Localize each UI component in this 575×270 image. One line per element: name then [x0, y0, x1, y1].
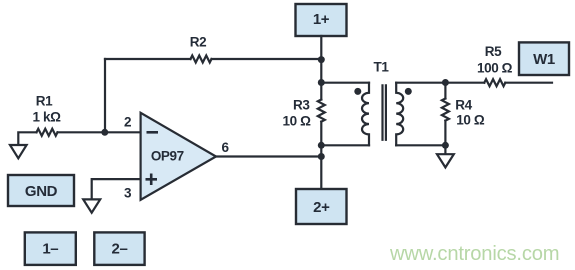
op-amp U1 OP97 — [141, 113, 216, 200]
wire primary top — [321, 82, 369, 84]
svg-text:2–: 2– — [112, 241, 128, 258]
T1 secondary phase dot — [405, 88, 412, 95]
svg-text:R5: R5 — [485, 44, 502, 59]
junction node inverting input — [101, 129, 108, 136]
svg-text:10 Ω: 10 Ω — [283, 114, 312, 129]
svg-text:GND: GND — [25, 183, 58, 200]
node W1 box — [519, 42, 569, 75]
wire secondary top — [396, 82, 445, 84]
resistor R5 — [484, 79, 505, 86]
svg-text:T1: T1 — [374, 59, 390, 74]
transformer T1 primary winding — [362, 83, 369, 146]
transformer T1 core — [383, 85, 386, 139]
wire R4 bottom to ground — [444, 121, 446, 155]
junction trunk x feedback wire — [318, 56, 325, 63]
node GND box — [8, 175, 74, 206]
svg-text:R1: R1 — [36, 94, 53, 109]
svg-text:R4: R4 — [455, 97, 472, 112]
svg-text:R2: R2 — [190, 35, 206, 50]
svg-text:1+: 1+ — [313, 11, 330, 28]
wire primary bottom — [321, 144, 369, 146]
junction secondary top x R4 x R5 — [442, 79, 449, 86]
resistor R1 — [37, 129, 58, 136]
wire secondary to R5 — [445, 82, 484, 84]
junction trunk x primary top — [318, 79, 325, 86]
transformer T1 secondary winding — [396, 83, 403, 146]
resistor R2 — [191, 56, 212, 63]
svg-text:2+: 2+ — [313, 199, 330, 216]
wire trunk 1+ down to R3 — [320, 36, 322, 100]
svg-text:W1: W1 — [533, 51, 555, 68]
wire op-amp output to trunk — [216, 155, 321, 157]
ground below transformer secondary — [437, 154, 454, 167]
wire R1 right to op-amp pin 2 — [58, 131, 141, 133]
op-amp plus sign — [146, 174, 158, 186]
node 1- box — [25, 232, 76, 265]
resistor R4 — [442, 99, 449, 121]
wire feedback vertical corner down to inverting input node — [104, 59, 106, 132]
svg-text:R3: R3 — [293, 98, 310, 113]
ground below pin 3 — [83, 199, 100, 212]
svg-text:100 Ω: 100 Ω — [477, 61, 513, 76]
svg-text:1 kΩ: 1 kΩ — [33, 109, 62, 124]
wire R2 right to trunk — [212, 58, 322, 60]
svg-text:2: 2 — [124, 115, 131, 130]
junction secondary bottom x R4 — [442, 142, 449, 149]
T1 primary phase dot — [354, 88, 361, 95]
node 2- box — [94, 232, 144, 265]
wire secondary bottom — [396, 144, 445, 146]
svg-text:3: 3 — [124, 186, 132, 201]
node 2+ box — [296, 189, 347, 224]
wire op-amp pin 3 to ground — [92, 179, 141, 199]
wire R5 right end — [505, 82, 552, 84]
wire R1 left with ground stub — [18, 132, 36, 145]
node 1+ box — [296, 4, 347, 36]
ground left — [10, 145, 27, 158]
svg-text:6: 6 — [221, 140, 229, 155]
svg-text:OP97: OP97 — [151, 148, 184, 163]
op-amp minus sign — [147, 131, 159, 134]
wire feedback top from corner to node 1+ trunk — [105, 58, 191, 60]
svg-text:www.cntronics.com: www.cntronics.com — [389, 243, 559, 265]
junction trunk x op-amp output — [318, 153, 325, 160]
resistor R3 — [318, 100, 325, 122]
junction trunk x primary bottom — [318, 142, 325, 149]
svg-text:10 Ω: 10 Ω — [456, 113, 485, 128]
wire R4 top stub — [444, 83, 446, 99]
wire trunk R3 bottom down to 2+ — [320, 122, 322, 189]
svg-text:1–: 1– — [42, 241, 58, 258]
